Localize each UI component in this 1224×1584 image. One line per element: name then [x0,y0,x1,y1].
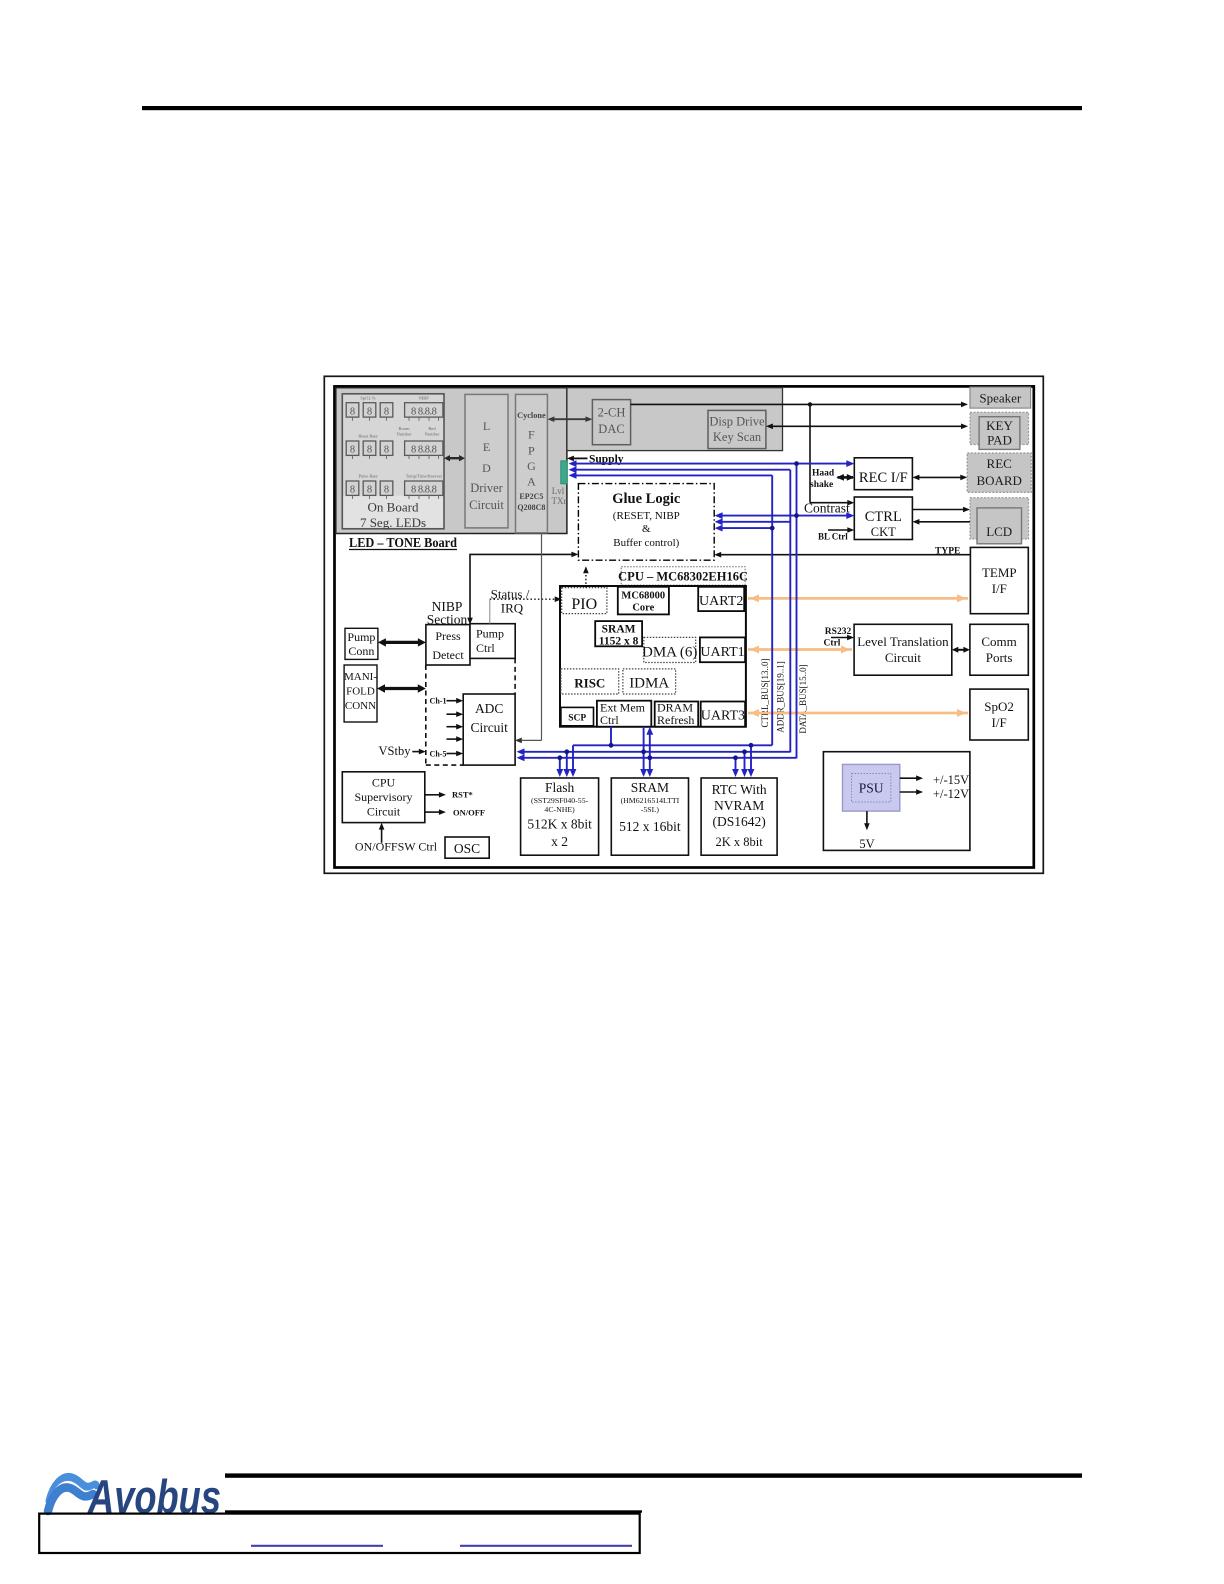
svg-text:REC: REC [987,456,1012,471]
svg-text:8: 8 [367,406,372,417]
svg-text:Flash: Flash [545,780,575,795]
svg-text:Detect: Detect [432,648,464,662]
svg-text:P: P [528,444,535,458]
svg-text:(HM6216514LTTI: (HM6216514LTTI [621,796,680,805]
svg-text:Number: Number [425,432,440,437]
svg-text:L: L [483,419,490,433]
svg-text:BOARD: BOARD [976,473,1022,488]
svg-text:RST*: RST* [452,790,473,800]
svg-text:LED – TONE Board: LED – TONE Board [349,535,457,550]
svg-text:8: 8 [350,485,355,496]
svg-text:5V: 5V [859,837,874,851]
svg-text:Circuit: Circuit [885,650,921,665]
svg-text:1152 x 8: 1152 x 8 [599,636,639,648]
svg-text:Pump: Pump [347,630,375,644]
svg-text:DATA_BUS[15..0]: DATA_BUS[15..0] [798,664,808,733]
svg-text:CTRL: CTRL [865,509,902,525]
svg-text:8 8.8.8: 8 8.8.8 [411,406,437,417]
svg-text:Ch-1: Ch-1 [430,697,447,706]
svg-text:EP2C5: EP2C5 [519,492,543,501]
svg-text:8 8.8.8: 8 8.8.8 [411,445,437,456]
svg-text:-5SL): -5SL) [641,805,660,814]
svg-text:SRAM: SRAM [631,780,669,795]
svg-text:8: 8 [350,406,355,417]
svg-text:Circuit: Circuit [367,805,401,819]
svg-text:RTC With: RTC With [712,782,767,797]
svg-text:A: A [527,475,536,489]
svg-text:Cyclone: Cyclone [517,411,546,420]
svg-text:Ctrl: Ctrl [600,713,619,727]
svg-text:8 8.8.8: 8 8.8.8 [411,485,437,496]
svg-text:Ch-5: Ch-5 [430,750,447,759]
svg-text:Press: Press [435,629,461,643]
svg-text:8: 8 [384,445,389,456]
svg-text:&: & [642,523,651,535]
svg-text:Driver: Driver [470,481,503,495]
svg-text:KEY: KEY [986,418,1013,433]
svg-text:UART1: UART1 [700,645,744,660]
svg-text:2K x 8bit: 2K x 8bit [715,835,763,849]
svg-text:Section: Section [427,612,468,627]
svg-text:Ctrl: Ctrl [824,639,841,649]
svg-text:Pump: Pump [476,627,504,641]
svg-text:UART3: UART3 [701,709,745,724]
svg-text:I/F: I/F [992,581,1007,596]
svg-text:Circuit: Circuit [470,720,508,735]
svg-text:+/-15V: +/-15V [933,773,969,787]
svg-text:Lvl: Lvl [552,486,565,496]
svg-text:Disp Drive: Disp Drive [709,415,765,429]
svg-text:ON/OFF: ON/OFF [453,808,485,818]
svg-text:TXr: TXr [552,496,567,506]
svg-text:DMA (6): DMA (6) [642,645,697,661]
svg-text:IDMA: IDMA [629,676,669,692]
svg-text:Avobus: Avobus [87,1470,221,1523]
svg-text:Heart Rate: Heart Rate [358,434,377,439]
svg-text:Pulse Rate: Pulse Rate [358,474,377,479]
svg-text:PAD: PAD [987,433,1012,448]
svg-text:F: F [528,428,535,442]
svg-text:Haad: Haad [812,469,835,479]
svg-text:CKT: CKT [871,525,896,539]
svg-text:OSC: OSC [454,841,480,856]
svg-text:Temp/Time/Interval: Temp/Time/Interval [406,474,443,479]
svg-text:DAC: DAC [598,422,624,436]
svg-text:Supervisory: Supervisory [355,790,413,804]
svg-text:NIBP: NIBP [419,395,430,400]
svg-text:Circuit: Circuit [469,498,504,512]
svg-text:Q208C8: Q208C8 [517,503,545,512]
svg-text:MC68000: MC68000 [621,591,665,602]
svg-text:Key Scan: Key Scan [713,430,762,444]
svg-text:Conn: Conn [348,644,374,658]
svg-text:D: D [482,461,491,475]
svg-text:CTRL_BUS[13..0]: CTRL_BUS[13..0] [760,658,770,727]
svg-text:UART2: UART2 [699,594,743,609]
svg-text:7 Seg. LEDs: 7 Seg. LEDs [360,515,426,530]
svg-text:Refresh: Refresh [657,713,694,727]
svg-text:TEMP: TEMP [982,565,1017,580]
svg-text:(SST29SF040-55-: (SST29SF040-55- [531,796,589,805]
svg-text:Room: Room [398,426,410,431]
svg-text:Speaker: Speaker [979,390,1022,405]
svg-text:I/F: I/F [992,715,1007,730]
svg-text:IRQ: IRQ [501,601,524,616]
svg-text:G: G [527,459,536,473]
svg-text:shake: shake [810,480,833,490]
svg-text:ADC: ADC [475,701,504,716]
svg-text:Number: Number [397,432,412,437]
svg-text:FOLD: FOLD [346,686,375,698]
svg-text:Comm: Comm [981,634,1016,649]
svg-text:(RESET, NIBP: (RESET, NIBP [613,510,680,522]
svg-text:ON/OFFSW Ctrl: ON/OFFSW Ctrl [355,840,438,854]
svg-text:Ports: Ports [986,650,1013,665]
svg-text:CPU: CPU [372,776,396,790]
svg-text:8: 8 [350,445,355,456]
svg-text:512 x 16bit: 512 x 16bit [619,819,681,834]
svg-text:BL Ctrl: BL Ctrl [818,532,848,542]
svg-text:Buffer control): Buffer control) [613,537,679,549]
svg-text:SCP: SCP [568,714,586,724]
svg-text:2-CH: 2-CH [598,406,626,420]
svg-text:SpO2: SpO2 [984,699,1014,714]
svg-text:8: 8 [367,445,372,456]
svg-text:SpO2 %: SpO2 % [360,395,375,400]
svg-text:8: 8 [367,485,372,496]
svg-text:NVRAM: NVRAM [714,798,764,813]
svg-text:Glue Logic: Glue Logic [612,491,681,507]
svg-text:RISC: RISC [574,676,605,691]
svg-text:x 2: x 2 [551,834,568,849]
svg-text:Level Translation: Level Translation [857,634,949,649]
svg-text:8: 8 [384,485,389,496]
svg-text:Core: Core [632,603,654,614]
svg-text:PIO: PIO [571,596,597,613]
svg-text:On Board: On Board [368,500,419,515]
svg-text:LCD: LCD [986,524,1012,539]
svg-text:E: E [483,440,490,454]
svg-text:(DS1642): (DS1642) [712,814,765,829]
svg-text:Bed: Bed [428,426,436,431]
svg-text:CONN: CONN [345,700,376,712]
svg-text:CPU – MC68302EH16C: CPU – MC68302EH16C [618,570,748,584]
svg-text:+/-12V: +/-12V [933,787,969,801]
svg-text:Ctrl: Ctrl [476,641,495,655]
svg-text:VStby: VStby [379,744,412,758]
svg-text:REC I/F: REC I/F [859,470,908,486]
svg-text:SRAM: SRAM [602,624,636,636]
svg-text:PSU: PSU [859,781,884,796]
svg-text:ADDR_BUS[19..1]: ADDR_BUS[19..1] [776,661,786,733]
svg-text:8: 8 [384,406,389,417]
svg-text:MANI-: MANI- [344,671,377,683]
svg-text:512K x 8bit: 512K x 8bit [527,817,592,832]
svg-text:4C-NHE): 4C-NHE) [544,805,575,814]
